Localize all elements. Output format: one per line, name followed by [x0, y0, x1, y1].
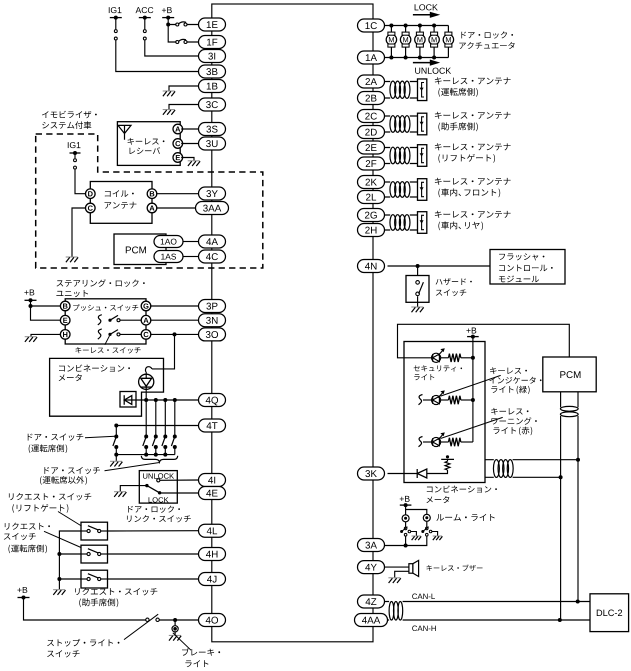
pin 3I — [199, 50, 226, 63]
wire IG1 to 3B — [116, 18, 199, 72]
lamp keyless warning — [419, 437, 423, 447]
pin 1AS — [154, 251, 183, 263]
brace door switches — [141, 456, 177, 462]
pin 1C — [358, 19, 385, 32]
antenna core box 4 — [418, 179, 427, 201]
pin 3U — [199, 137, 226, 150]
wire driver switch ground — [115, 455, 117, 461]
pin 2L — [358, 191, 385, 204]
switch request 1 — [87, 529, 90, 532]
label coil antenna — [105, 190, 134, 197]
box request switch 2 — [81, 545, 108, 563]
pin 2H — [358, 224, 385, 237]
label keyless buzzer — [426, 565, 482, 572]
ground brake light — [169, 635, 181, 640]
leader keyless warning — [441, 417, 503, 438]
switch room 1 — [404, 527, 407, 530]
switch to 1F — [176, 39, 187, 43]
antenna core box 1 — [418, 79, 427, 101]
node IG1 — [110, 16, 122, 20]
lamp curl — [145, 367, 152, 372]
box immobilizer system (dashed) — [36, 134, 263, 268]
pin 4O — [199, 614, 226, 627]
pin 4Y — [358, 561, 385, 574]
wire main bus loop — [212, 4, 373, 642]
terminal A — [173, 124, 183, 134]
terminal A coil — [147, 203, 157, 213]
box combination meter right — [404, 342, 485, 483]
pin 4T — [199, 419, 226, 432]
label keyless antenna 2 — [435, 112, 511, 119]
box request switch 1 — [81, 522, 108, 540]
leader door switch driver — [85, 436, 115, 438]
terminal D — [86, 189, 96, 199]
wire C to 3U — [181, 143, 198, 145]
wire 1B to ground — [169, 86, 199, 91]
lamp keyless indicator — [419, 395, 423, 405]
label keyless antenna 3 — [435, 143, 511, 150]
label security light — [414, 365, 462, 371]
pin 2D — [358, 126, 385, 139]
diode meter — [124, 395, 132, 404]
wire lock to 4E — [160, 492, 199, 494]
wire request common — [59, 531, 81, 589]
antenna coil 3 — [385, 147, 418, 164]
terminal H steering — [60, 330, 70, 340]
pin 3P — [199, 300, 226, 313]
ground buzzer — [388, 578, 400, 583]
terminal B coil — [147, 189, 157, 199]
lamp security light — [404, 357, 432, 359]
wire +B to stop light switch — [24, 598, 147, 621]
label push switch — [73, 304, 138, 311]
label keyless indicator light — [490, 367, 527, 374]
antenna coil 2 — [385, 116, 418, 133]
terminal G — [141, 301, 151, 311]
box keyless receiver — [117, 122, 180, 166]
coil PCM pair — [560, 406, 578, 416]
switch hazard — [416, 281, 420, 285]
pin 2F — [358, 157, 385, 170]
box PCM — [114, 234, 166, 265]
ground 3C — [163, 110, 175, 115]
coil CAN twisted pair — [385, 602, 390, 621]
ground E — [188, 161, 200, 166]
label LOCK — [415, 4, 438, 10]
pin 3B — [199, 65, 226, 78]
pin 3S — [199, 123, 226, 136]
leader brake light — [173, 633, 191, 650]
terminal C steering — [141, 330, 151, 340]
diode box — [120, 392, 136, 408]
wire 4T down — [115, 426, 117, 437]
terminal C — [173, 139, 183, 149]
antenna coil 5 — [385, 215, 418, 231]
pin 2E — [358, 141, 385, 154]
terminal B steering — [60, 301, 70, 311]
antenna coil 1 — [385, 81, 418, 98]
switch room 2 — [426, 527, 429, 530]
pin 3O — [199, 328, 226, 341]
wire E to ground — [181, 158, 194, 161]
wire 4Q line — [124, 399, 199, 401]
room lamp 1 — [402, 515, 409, 522]
leader keyless indicator — [441, 375, 501, 396]
leader door switch others — [105, 463, 160, 471]
wire CAN-H — [403, 619, 590, 621]
switch request 2 — [87, 552, 90, 555]
wire CAN-L — [403, 601, 590, 603]
switch door lock link — [157, 479, 160, 482]
label keyless antenna 4 — [435, 178, 511, 185]
buzzer speaker — [409, 560, 419, 576]
pin 3K — [358, 467, 385, 480]
wire room light branches — [406, 505, 427, 527]
ground coil — [66, 257, 78, 262]
switch door driver — [114, 435, 118, 439]
wire coil C to ground — [72, 208, 86, 257]
wire +B to B and E — [31, 300, 62, 320]
label room light — [436, 514, 494, 521]
ground steering — [25, 337, 37, 342]
label flasher control module — [499, 253, 544, 260]
switch to 1E — [176, 22, 187, 26]
label door switch driver — [28, 434, 84, 441]
pin 1AO — [154, 236, 183, 248]
motor M5 — [443, 26, 453, 58]
wire diode to resistor — [427, 470, 448, 474]
motor M2 — [400, 26, 410, 58]
resistor security — [441, 357, 449, 359]
pin 3C — [199, 98, 226, 111]
leader request driver — [44, 531, 81, 547]
node ACC — [139, 16, 151, 20]
pin 3Y — [199, 187, 226, 200]
wire IG1 to coil D — [75, 153, 86, 194]
connector on ACC wire — [143, 30, 146, 40]
node +B meter — [467, 335, 479, 339]
thermistor symbol — [445, 461, 450, 470]
switch door 3 — [154, 435, 158, 439]
switch request 3 — [87, 577, 90, 580]
node +B steering — [25, 298, 37, 302]
motor M4 — [429, 26, 439, 58]
switch push — [98, 315, 102, 325]
wire 1AO to 4A — [183, 241, 199, 243]
room lamp 2 — [423, 514, 430, 521]
wire door switch bus — [116, 454, 175, 456]
resistor warning — [441, 441, 449, 443]
wire request 2 to 4H — [108, 553, 199, 555]
diode 3K — [417, 469, 427, 478]
wire actuator top rail — [385, 25, 449, 27]
terminal E — [173, 153, 183, 163]
label UNLOCK — [415, 68, 451, 74]
label immobilizer — [42, 111, 97, 118]
switch keyless — [98, 329, 102, 339]
wire A to 3S — [181, 128, 198, 130]
arrow lock — [413, 14, 431, 16]
ground room 2 — [433, 536, 443, 540]
box hazard switch — [406, 276, 429, 303]
coil meter pair — [493, 460, 513, 478]
box door lock link switch — [139, 471, 177, 504]
pin 4AA — [355, 614, 388, 627]
arrow unlock — [413, 62, 431, 64]
box coil antenna — [90, 182, 152, 224]
connector on IG1 wire 2 — [74, 159, 77, 169]
wire A to 3AA — [156, 207, 195, 209]
label door lock link switch — [128, 506, 180, 513]
pin 2C — [358, 110, 385, 123]
label request switch passenger — [75, 588, 157, 595]
wire +B to switches — [168, 18, 198, 42]
pin 4Z — [358, 595, 385, 608]
label door lock actuator — [461, 31, 513, 38]
pin 1A — [358, 51, 385, 64]
box flasher control module — [490, 250, 565, 285]
pin 2G — [358, 209, 385, 222]
switch door 2 — [144, 435, 148, 439]
wire lamp down — [145, 387, 147, 436]
pin 4N — [358, 260, 385, 273]
pin 4I — [199, 474, 226, 487]
label keyless antenna 1 — [435, 77, 511, 84]
wire 1AS to 4C — [183, 256, 199, 258]
wire 3K to diode — [388, 473, 418, 475]
resistor indicator — [441, 399, 449, 401]
ground room 1 — [412, 536, 422, 540]
label CAN-L — [412, 594, 435, 600]
box request switch 3 — [81, 570, 108, 588]
pin 4H — [199, 548, 226, 561]
leader request liftgate — [58, 512, 82, 527]
label keyless receiver — [128, 138, 165, 145]
pin 1E — [199, 18, 226, 31]
lamp meter — [139, 374, 154, 389]
node +B room — [400, 503, 412, 507]
wire ACC to 3I — [145, 18, 199, 56]
label combination meter left — [59, 364, 130, 371]
label CAN-H — [412, 626, 436, 632]
box PCM right — [543, 357, 596, 392]
antenna core box 5 — [418, 212, 427, 234]
switch door 4 — [163, 435, 167, 439]
pin 3A — [358, 539, 385, 552]
motor M3 — [415, 26, 425, 58]
wire common to ground — [120, 486, 147, 492]
wire +B meter down — [472, 337, 474, 442]
wire PCM down pair — [561, 392, 578, 620]
wire 4N to flasher — [388, 265, 491, 267]
leader keyless switch — [105, 336, 110, 345]
wire to 4O — [159, 619, 198, 621]
pin 4E — [199, 487, 226, 500]
pin 3N — [199, 314, 226, 327]
pin 1F — [199, 36, 226, 49]
label brake light — [182, 648, 220, 656]
terminal C coil — [86, 203, 96, 213]
brake light lamp — [174, 620, 176, 626]
switch stop light — [146, 618, 149, 621]
ground request switches — [53, 590, 65, 595]
wire meter to CAN pair — [485, 460, 578, 478]
antenna core box 2 — [418, 113, 427, 135]
label combination meter right — [427, 485, 497, 492]
node +B top — [162, 16, 174, 20]
motor M1 — [386, 26, 396, 58]
terminal A steering — [141, 315, 151, 325]
ground door switches — [110, 461, 122, 466]
ground hazard — [411, 307, 423, 312]
box DLC-2 — [590, 594, 629, 632]
wire H to ground — [31, 334, 61, 336]
wire security light to PCM loop — [398, 324, 570, 358]
label keyless antenna 5 — [435, 211, 511, 218]
wire request 1 to 4L — [108, 530, 199, 532]
pin 1B — [199, 80, 226, 93]
wire 4Y to buzzer — [385, 567, 409, 577]
wire A to 3N — [150, 319, 198, 321]
wire unlock to 4I — [160, 479, 199, 481]
antenna core box 3 — [418, 145, 427, 167]
wire 3C to ground — [169, 105, 199, 110]
ground door lock link — [114, 492, 126, 497]
wire room 1 to 3A — [405, 536, 407, 546]
wire request 3 to 4J — [108, 578, 199, 580]
wire 3O branch to meter lamp — [152, 334, 175, 369]
switch door 5 — [173, 435, 177, 439]
antenna coil 4 — [385, 182, 418, 198]
node IG1 immobilizer — [70, 151, 81, 155]
label door switch others — [44, 467, 100, 474]
wire 3A line — [385, 536, 427, 546]
label steering lock unit — [57, 279, 145, 287]
label keyless warning light — [491, 408, 528, 415]
pin 4Q — [199, 394, 226, 407]
pin 4J — [199, 573, 226, 586]
pin 4C — [199, 250, 226, 263]
wire C to 3O — [150, 333, 198, 335]
wire actuator bottom rail — [385, 57, 449, 59]
ground 1B — [163, 91, 175, 96]
label hazard switch — [436, 278, 472, 285]
wire hazard ground — [417, 296, 419, 306]
pin 2K — [358, 176, 385, 189]
wire 4T line — [116, 425, 198, 427]
pin 4L — [199, 524, 226, 537]
box combination meter left — [50, 358, 164, 416]
antenna symbol — [118, 125, 131, 139]
wire hazard — [417, 266, 419, 276]
label request switch liftgate — [9, 493, 91, 500]
node +B bottom — [18, 596, 30, 600]
wires 4Q verticals — [155, 400, 157, 437]
label stop light switch — [47, 639, 119, 647]
box steering lock unit — [65, 299, 146, 344]
leader stop light switch — [124, 614, 158, 639]
terminal E steering — [60, 315, 70, 325]
pin 2B — [358, 92, 385, 105]
label keyless switch — [75, 347, 140, 353]
connector on IG1 wire — [114, 30, 117, 40]
pin 2A — [358, 75, 385, 88]
label request switch driver — [5, 523, 50, 530]
wire B to 3Y — [156, 193, 198, 195]
pin 4A — [199, 235, 226, 248]
wire G to 3P — [150, 305, 198, 307]
pin 3AA — [196, 202, 229, 215]
